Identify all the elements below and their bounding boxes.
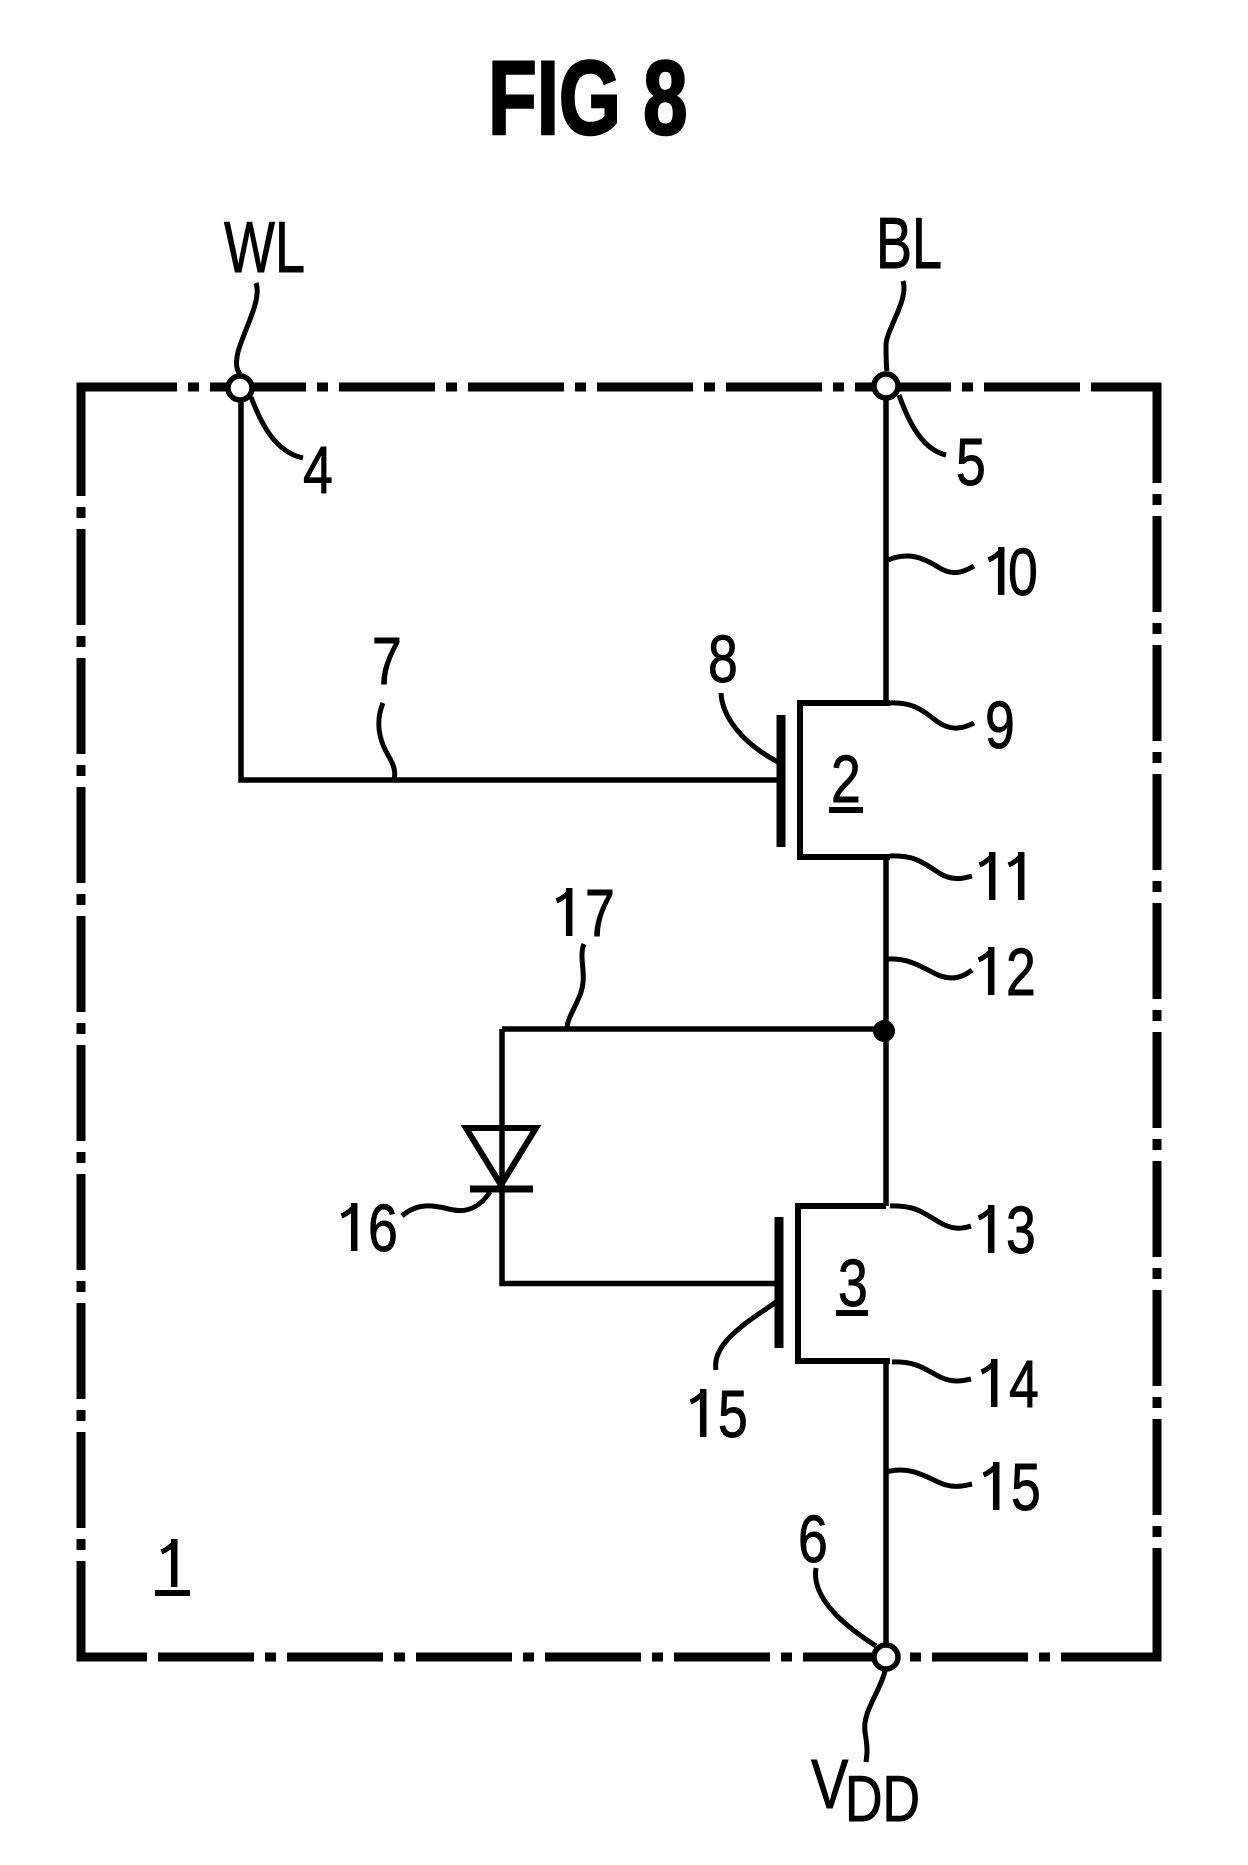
leader from label 8 to gate bar of transistor 2 <box>721 693 778 762</box>
leader from WL to node 4 <box>237 283 258 374</box>
cell boundary border, bottom side <box>81 1653 1157 1662</box>
leader from drain lead to label 9 <box>889 703 974 728</box>
leader from node 5 to label 5 <box>899 395 946 455</box>
leader from label 15 to gate bar of transistor 3 <box>716 1301 777 1370</box>
leader from node 4 to label 4 <box>251 397 303 458</box>
svg-text:2: 2 <box>1006 934 1036 1009</box>
transistor 2 label underline <box>829 807 863 813</box>
leader from source lead to label 11 <box>890 856 972 879</box>
transistor 3 drain lead (pin 13) <box>795 1203 886 1209</box>
leader from label 7 to gate wire <box>379 703 395 780</box>
wire: feedback loop bottom horizontal to gate of transistor 3 <box>502 1280 777 1286</box>
leader from label 16 to diode bar <box>402 1192 490 1216</box>
svg-text:FIG 8: FIG 8 <box>488 39 688 156</box>
svg-text:5: 5 <box>956 424 986 499</box>
svg-text:BL: BL <box>876 204 942 284</box>
label 12 <box>979 947 994 995</box>
node 6: VDD terminal circle <box>874 1645 898 1669</box>
label VDD <box>811 1746 920 1835</box>
svg-text:8: 8 <box>708 621 738 696</box>
wire WL vertical and gate wire 7 <box>241 399 778 780</box>
leader from node 6 to VDD label <box>865 1671 885 1762</box>
wire 17: feedback loop top horizontal <box>502 1026 886 1032</box>
label 15 (gate of transistor 3) <box>691 1389 706 1437</box>
svg-text:9: 9 <box>985 687 1015 762</box>
leader from wire to label 15 <box>886 1470 972 1486</box>
transistor 2 channel line <box>797 700 803 858</box>
label 1 underline <box>155 1590 190 1596</box>
leader from label 6 to node 6 <box>816 1568 877 1646</box>
label 17 <box>557 888 572 936</box>
cell boundary border, left side <box>77 387 86 1657</box>
svg-text:2: 2 <box>831 741 861 816</box>
label 15 (wire to VDD) <box>984 1462 999 1510</box>
svg-text:6: 6 <box>798 1501 828 1576</box>
label 13 <box>979 1205 994 1253</box>
svg-text:0: 0 <box>1008 534 1038 609</box>
junction dot node 12/17 <box>873 1020 895 1042</box>
transistor 3 source lead (pin 14) <box>795 1358 890 1364</box>
svg-text:3: 3 <box>838 1245 868 1320</box>
svg-text:V: V <box>811 1746 848 1823</box>
node 4: WL terminal circle <box>228 376 252 400</box>
svg-text:5: 5 <box>1011 1449 1041 1524</box>
wire: feedback loop left vertical <box>499 1029 505 1283</box>
transistor 2 source lead (pin 11) <box>797 854 890 860</box>
wire BL vertical (node to transistor 2 drain lead) <box>883 398 889 703</box>
svg-text:4: 4 <box>1009 1346 1039 1421</box>
diode 16 triangle <box>466 1128 536 1185</box>
svg-text:7: 7 <box>372 623 402 698</box>
svg-text:WL: WL <box>224 208 305 288</box>
transistor 3 gate bar <box>775 1217 784 1348</box>
leader from wire 12 to label 12 <box>888 959 972 978</box>
transistor 2 gate bar <box>777 715 786 847</box>
cell boundary border, right side <box>1153 387 1162 1657</box>
svg-text:5: 5 <box>718 1376 748 1451</box>
wire 15: transistor 3 source down to VDD node <box>883 1361 889 1646</box>
transistor 3 channel line <box>795 1204 801 1363</box>
leader from drain lead of transistor 3 to label 13 <box>890 1206 971 1228</box>
node 5: BL terminal circle <box>874 374 898 398</box>
svg-text:7: 7 <box>585 875 615 950</box>
wire 12: transistor 2 source to transistor 3 drain through node <box>883 857 889 1206</box>
cell boundary border (dash-dot), top side <box>81 383 1157 392</box>
transistor 2 drain lead (pin 9) <box>797 700 890 706</box>
label 14 <box>982 1359 997 1407</box>
border corner solid joints <box>81 387 1157 1657</box>
leader from label 17 to loop wire <box>567 944 584 1027</box>
svg-text:DD: DD <box>845 1764 920 1836</box>
label 1 (cell reference) <box>162 1539 177 1587</box>
svg-text:4: 4 <box>303 432 333 507</box>
svg-text:3: 3 <box>1006 1192 1036 1267</box>
leader from BL to node 5 <box>886 281 904 371</box>
svg-text:6: 6 <box>368 1190 398 1265</box>
label 10 <box>989 547 1004 595</box>
label 16 <box>342 1203 357 1251</box>
leader from BL wire to label 10 <box>888 556 974 573</box>
leader from source lead of transistor 3 to label 14 <box>892 1362 971 1381</box>
label 11 <box>980 852 995 900</box>
diode 16 cathode bar <box>470 1186 533 1193</box>
transistor 3 label underline <box>836 1310 868 1316</box>
